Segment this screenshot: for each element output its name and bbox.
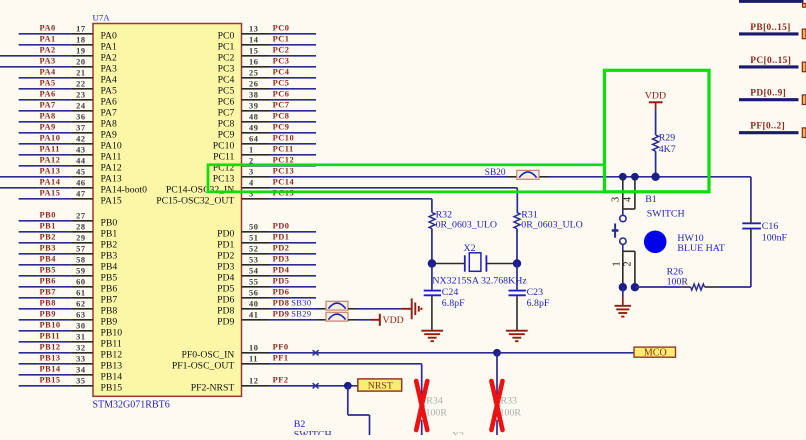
wire R32 to crystal node: [431, 229, 433, 264]
svg-text:PC11: PC11: [213, 151, 234, 162]
not-fitted cross over R34: [416, 381, 427, 430]
wire PC9: [270, 132, 317, 134]
svg-text:VDD: VDD: [383, 315, 404, 326]
wire PB9: [19, 319, 72, 321]
svg-text:34: 34: [76, 366, 86, 375]
port box PC[0..15]: [802, 62, 806, 72]
wire R34 to bottom: [421, 420, 423, 435]
svg-text:42: 42: [76, 135, 85, 144]
pin stub PD3: [242, 264, 270, 266]
pin stub SB20 left: [507, 176, 517, 178]
svg-text:R29: R29: [659, 133, 676, 144]
pin stub PA15: [71, 198, 93, 200]
svg-text:PD0: PD0: [217, 228, 234, 239]
pin stub PF1: [242, 363, 270, 365]
junction NRST: [344, 382, 352, 390]
wire C23 to ground: [516, 296, 518, 330]
pin stub PD5: [242, 286, 270, 288]
svg-text:PC2: PC2: [273, 46, 290, 55]
wire PD0: [270, 231, 317, 233]
svg-text:PC7: PC7: [218, 107, 235, 118]
wire PC3: [270, 66, 317, 68]
svg-text:U7A: U7A: [93, 12, 111, 22]
svg-text:PC0: PC0: [273, 24, 290, 33]
pin stub PD1: [242, 242, 270, 244]
wire PB15: [19, 385, 72, 387]
svg-text:41: 41: [249, 311, 258, 320]
wire PC4: [270, 77, 317, 79]
svg-text:43: 43: [76, 146, 85, 155]
svg-text:PB15: PB15: [101, 382, 123, 393]
svg-text:B1: B1: [645, 194, 657, 205]
pin stub PC6: [242, 99, 270, 101]
svg-text:SB29: SB29: [291, 310, 311, 319]
wire crystal right stub: [486, 263, 517, 265]
svg-text:PD5: PD5: [217, 283, 234, 294]
svg-text:53: 53: [249, 256, 258, 265]
pin stub PA8: [71, 121, 93, 123]
svg-text:61: 61: [76, 289, 85, 298]
wire SB30 to ground: [357, 308, 402, 310]
pin stub PC3: [242, 66, 270, 68]
svg-text:PC10: PC10: [213, 140, 235, 151]
svg-text:PC10: PC10: [273, 134, 295, 143]
svg-text:PC0: PC0: [218, 30, 235, 41]
svg-text:PB2: PB2: [40, 233, 56, 242]
svg-text:27: 27: [76, 212, 85, 221]
svg-text:54: 54: [249, 267, 259, 276]
svg-text:3: 3: [249, 168, 254, 177]
pin stub PA12: [71, 165, 93, 167]
wire PB7: [19, 297, 72, 299]
bus PC[0..15]: [739, 65, 799, 68]
wire PD8 to SB30: [270, 308, 319, 310]
svg-text:PD3: PD3: [273, 255, 290, 264]
pin stub PD4: [242, 275, 270, 277]
pin stub PC9: [242, 132, 270, 134]
IC U7A body: [93, 24, 242, 397]
svg-text:R34: R34: [426, 395, 443, 406]
wire crystal left stub: [432, 263, 465, 265]
svg-text:PA7: PA7: [40, 101, 56, 110]
svg-text:17: 17: [76, 25, 85, 34]
svg-text:13: 13: [249, 25, 258, 34]
svg-text:PB12: PB12: [40, 343, 61, 352]
svg-text:6.8pF: 6.8pF: [442, 298, 465, 309]
svg-text:R33: R33: [501, 395, 518, 406]
svg-text:44: 44: [76, 157, 86, 166]
pin stub PA0: [71, 33, 93, 35]
wire PC13 to SB20: [270, 176, 508, 178]
pin stub R26 right: [705, 286, 719, 288]
svg-text:PA3: PA3: [40, 57, 56, 66]
pin stub PC4: [242, 77, 270, 79]
pin stub PA9: [71, 132, 93, 134]
svg-text:PD8: PD8: [273, 299, 290, 308]
svg-text:PC14: PC14: [273, 178, 295, 187]
svg-text:PB8: PB8: [101, 305, 118, 316]
ground under C23: [506, 330, 528, 332]
wire PA13: [0, 176, 71, 178]
pin stub PA4: [71, 77, 93, 79]
solder bridge SB29: [326, 312, 348, 321]
svg-text:PC[0..15]: PC[0..15]: [750, 56, 791, 66]
svg-text:PC6: PC6: [273, 90, 290, 99]
resistor R31: [514, 213, 520, 229]
pin stub PC1: [242, 44, 270, 46]
wire switch to ground: [622, 287, 624, 296]
wire PB0: [19, 220, 72, 222]
pin stub PD6: [242, 297, 270, 299]
svg-text:37: 37: [76, 124, 85, 133]
switch B1 pin 2 wire: [634, 251, 636, 287]
wire PA12: [19, 165, 72, 167]
junction switch pin1 bottom: [619, 283, 627, 291]
bus PF[0..2]: [739, 131, 799, 134]
svg-text:59: 59: [76, 267, 85, 276]
svg-text:PB9: PB9: [101, 316, 118, 327]
wire PF2 to junction: [270, 385, 358, 387]
wire PD2: [270, 253, 317, 255]
switch B1 contact to pins join: [622, 244, 624, 251]
svg-text:PB3: PB3: [101, 250, 118, 261]
pin stub PA14: [71, 187, 93, 189]
svg-text:32: 32: [76, 344, 85, 353]
pin stub PC10: [242, 143, 270, 145]
svg-text:PB0: PB0: [101, 217, 118, 228]
wire R29 to PC13 net: [655, 151, 657, 177]
svg-text:PD[0..9]: PD[0..9]: [750, 89, 786, 99]
wire PB14: [19, 374, 72, 376]
svg-text:PA9: PA9: [40, 123, 56, 132]
pin stub PC12: [242, 165, 270, 167]
svg-text:PC5: PC5: [273, 79, 290, 88]
svg-text:PC9: PC9: [273, 123, 290, 132]
svg-text:4: 4: [622, 197, 633, 202]
svg-text:63: 63: [76, 311, 85, 320]
pin stub PB11: [71, 341, 93, 343]
pin stub PB14: [71, 374, 93, 376]
svg-text:15: 15: [249, 47, 258, 56]
resistor R34 (not fitted): [419, 396, 425, 420]
svg-text:29: 29: [76, 234, 85, 243]
svg-text:PA0: PA0: [40, 24, 56, 33]
node OSC right junction: [513, 259, 521, 267]
svg-text:PD0: PD0: [273, 222, 290, 231]
wire C16 down to R26 net: [750, 238, 752, 287]
svg-text:52: 52: [249, 245, 258, 254]
svg-text:PB13: PB13: [101, 360, 123, 371]
svg-text:100R: 100R: [667, 276, 689, 287]
svg-text:PA1: PA1: [40, 35, 56, 44]
wire R33 to bottom: [496, 420, 498, 435]
svg-text:X3: X3: [452, 431, 464, 435]
svg-text:24: 24: [76, 102, 86, 111]
svg-text:PB14: PB14: [40, 365, 61, 374]
pin stub PC5: [242, 88, 270, 90]
svg-text:PB5: PB5: [101, 272, 118, 283]
svg-text:PD4: PD4: [273, 266, 290, 275]
wire PB11: [19, 341, 72, 343]
solder bridge SB30: [326, 301, 348, 310]
svg-text:PB13: PB13: [40, 354, 61, 363]
svg-text:16: 16: [249, 58, 258, 67]
wire PC15 horizontal: [270, 198, 432, 200]
pin stub PC13: [242, 176, 270, 178]
pin stub PA2: [71, 55, 93, 57]
port box PF[0..2]: [802, 128, 806, 138]
svg-text:58: 58: [76, 256, 85, 265]
svg-text:100nF: 100nF: [762, 233, 788, 244]
svg-text:PD9: PD9: [273, 310, 290, 319]
svg-text:C24: C24: [442, 287, 459, 298]
svg-text:PB10: PB10: [40, 321, 61, 330]
svg-text:18: 18: [76, 36, 85, 45]
pin stub PB3: [71, 253, 93, 255]
pin stub PB15: [71, 385, 93, 387]
wire PA3: [0, 66, 71, 68]
svg-text:49: 49: [249, 124, 258, 133]
svg-text:PA14: PA14: [40, 178, 61, 187]
wire NRST corner horizontal: [348, 414, 370, 416]
svg-text:60: 60: [76, 278, 85, 287]
svg-text:PC15-OSC32_OUT: PC15-OSC32_OUT: [156, 195, 234, 206]
svg-text:4K7: 4K7: [659, 144, 676, 155]
svg-text:PC3: PC3: [273, 57, 290, 66]
svg-text:PB7: PB7: [40, 288, 56, 297]
wire PA14: [0, 187, 71, 189]
junction R29 wire: [651, 173, 659, 181]
pin stub PB0: [71, 220, 93, 222]
svg-text:PD2: PD2: [217, 250, 234, 261]
wire junction down to R33: [496, 353, 498, 396]
wire PC8: [270, 121, 317, 123]
svg-text:100R: 100R: [500, 407, 522, 418]
junction switch pin4: [631, 173, 639, 181]
svg-text:PF1-OSC_OUT: PF1-OSC_OUT: [172, 360, 235, 371]
svg-text:PF1: PF1: [273, 354, 289, 363]
svg-text:PD1: PD1: [273, 233, 290, 242]
svg-text:PA5: PA5: [101, 85, 117, 96]
wire PB6: [19, 286, 72, 288]
resistor R32: [429, 213, 435, 229]
svg-text:C23: C23: [527, 287, 544, 298]
wire PF1 down to R34: [421, 364, 423, 396]
wire PB12: [19, 352, 72, 354]
wire PA6: [19, 99, 72, 101]
node OSC left junction: [428, 259, 436, 267]
svg-text:62: 62: [76, 300, 85, 309]
wire PA4: [19, 77, 72, 79]
svg-text:PC7: PC7: [273, 101, 290, 110]
svg-text:PF[0..2]: PF[0..2]: [750, 122, 785, 132]
pin stub PB8: [71, 308, 93, 310]
svg-text:PB5: PB5: [40, 266, 56, 275]
junction PF0/MCO: [493, 349, 501, 357]
svg-text:PA1: PA1: [101, 41, 117, 52]
svg-text:55: 55: [249, 278, 258, 287]
wire R26 to C16: [718, 286, 751, 288]
svg-text:PA10: PA10: [40, 134, 61, 143]
svg-text:35: 35: [76, 377, 85, 386]
svg-text:PC5: PC5: [218, 85, 235, 96]
svg-text:PB1: PB1: [40, 222, 56, 231]
wire PB3: [19, 253, 72, 255]
svg-text:1: 1: [611, 261, 622, 266]
pin stub PB7: [71, 297, 93, 299]
wire PC14 horizontal: [270, 187, 518, 189]
svg-text:PA10: PA10: [101, 140, 122, 151]
svg-text:40: 40: [249, 300, 258, 309]
svg-text:PC1: PC1: [273, 35, 290, 44]
svg-text:PC2: PC2: [218, 52, 235, 63]
svg-text:3: 3: [611, 197, 622, 202]
pin stub PF2: [242, 385, 270, 387]
svg-text:PD8: PD8: [217, 305, 234, 316]
svg-text:PC14-OSC32_IN: PC14-OSC32_IN: [166, 184, 234, 195]
svg-text:PA15: PA15: [101, 195, 122, 206]
wire PA1: [19, 44, 72, 46]
wire R31 to crystal node: [516, 229, 518, 264]
svg-text:2: 2: [622, 261, 633, 266]
wire PF1 horizontal: [270, 363, 422, 365]
svg-text:PC1: PC1: [218, 41, 235, 52]
svg-text:47: 47: [76, 190, 85, 199]
pin stub PB13: [71, 363, 93, 365]
wire PC7: [270, 110, 317, 112]
port NRST: [358, 379, 402, 391]
svg-text:22: 22: [76, 80, 85, 89]
pin stub PD8: [242, 308, 270, 310]
svg-text:PA15: PA15: [40, 189, 61, 198]
svg-text:PA2: PA2: [40, 46, 56, 55]
wire PA2: [0, 55, 71, 57]
ground sideways at PD8: [402, 308, 411, 310]
svg-text:21: 21: [76, 69, 85, 78]
not-fitted cross over R33: [491, 381, 502, 430]
wire PD6: [270, 297, 317, 299]
svg-text:PC13: PC13: [273, 167, 295, 176]
svg-text:PA13: PA13: [40, 167, 61, 176]
resistor R26: [691, 284, 705, 290]
ground under switch B1: [615, 305, 632, 307]
wire PB5: [19, 275, 72, 277]
svg-text:10: 10: [249, 344, 258, 353]
switch B1 bottom contact circle: [620, 238, 626, 244]
wire PA10: [19, 143, 72, 145]
svg-text:PC11: PC11: [273, 145, 294, 154]
pin stub PA10: [71, 143, 93, 145]
button HW10 blue hat: [644, 231, 667, 254]
port box PA bus: [803, 3, 806, 7]
pin stub R26 left: [682, 286, 691, 288]
svg-text:NX3215SA 32.768KHz: NX3215SA 32.768KHz: [432, 276, 527, 287]
highlight green thin rectangle: [208, 165, 605, 192]
svg-text:PD5: PD5: [273, 277, 290, 286]
bus PB[0..15]: [739, 32, 799, 35]
pin stub PB12: [71, 352, 93, 354]
wire PF0 to junction: [270, 352, 498, 354]
svg-text:48: 48: [249, 113, 258, 122]
svg-text:11: 11: [249, 355, 258, 364]
wire PD3: [270, 264, 317, 266]
svg-text:57: 57: [76, 245, 85, 254]
pin stub SB29 left: [319, 319, 327, 321]
switch B1 pin 1 wire: [622, 251, 624, 287]
svg-text:PC8: PC8: [218, 118, 235, 129]
pin stub PA1: [71, 44, 93, 46]
svg-text:33: 33: [76, 355, 85, 364]
wire PC0: [270, 33, 317, 35]
svg-text:PA4: PA4: [101, 74, 117, 85]
svg-text:PD6: PD6: [217, 294, 234, 305]
wire PA7: [19, 110, 72, 112]
wire NRST down: [347, 386, 349, 415]
wire PC1: [270, 44, 317, 46]
pin stub PB5: [71, 275, 93, 277]
pin stub PC14: [242, 187, 270, 189]
wire PB2: [19, 242, 72, 244]
svg-text:PB4: PB4: [101, 261, 118, 272]
svg-text:PB4: PB4: [40, 255, 57, 264]
svg-text:PB7: PB7: [101, 294, 118, 305]
wire node to C24: [431, 264, 433, 290]
svg-text:PB6: PB6: [101, 283, 118, 294]
svg-text:56: 56: [249, 289, 258, 298]
wire PB13: [19, 363, 72, 365]
svg-text:4: 4: [249, 179, 254, 188]
wire PC2: [270, 55, 317, 57]
svg-text:PB14: PB14: [101, 371, 123, 382]
pin stub SB30 right: [348, 308, 357, 310]
pin stub PC7: [242, 110, 270, 112]
wire C24 to ground: [431, 296, 433, 330]
pin stub PD2: [242, 253, 270, 255]
pin stub PC11: [242, 154, 270, 156]
wire PC10: [270, 143, 317, 145]
wire node to C23: [516, 264, 518, 290]
svg-text:PC4: PC4: [273, 68, 290, 77]
pin stub SB20 right: [539, 176, 549, 178]
wire PB8: [19, 308, 72, 310]
svg-text:20: 20: [76, 58, 85, 67]
svg-text:PB3: PB3: [40, 244, 56, 253]
pin stub PC8: [242, 121, 270, 123]
svg-text:14: 14: [249, 36, 259, 45]
svg-text:46: 46: [76, 179, 85, 188]
solder bridge SB20: [517, 170, 539, 179]
svg-text:PA13: PA13: [101, 173, 122, 184]
svg-text:PA6: PA6: [101, 96, 117, 107]
svg-text:PA0: PA0: [101, 30, 117, 41]
svg-text:PD6: PD6: [273, 288, 290, 297]
svg-text:PA12: PA12: [101, 162, 122, 173]
wire PA8: [19, 121, 72, 123]
svg-text:SB20: SB20: [485, 168, 506, 178]
crystal X2: [464, 255, 466, 271]
wire SB29 to VDD: [357, 319, 370, 321]
svg-text:VDD: VDD: [645, 90, 666, 101]
svg-text:PD9: PD9: [217, 316, 234, 327]
svg-text:PF0-OSC_IN: PF0-OSC_IN: [182, 349, 235, 360]
junction switch pin3: [619, 173, 627, 181]
wire PC13 net down to C16: [750, 177, 752, 215]
svg-text:PA9: PA9: [101, 129, 117, 140]
svg-text:PA14-boot0: PA14-boot0: [101, 184, 148, 195]
junction switch pin2 bottom: [631, 283, 639, 291]
svg-text:PD2: PD2: [273, 244, 290, 253]
wire PA9: [19, 132, 72, 134]
